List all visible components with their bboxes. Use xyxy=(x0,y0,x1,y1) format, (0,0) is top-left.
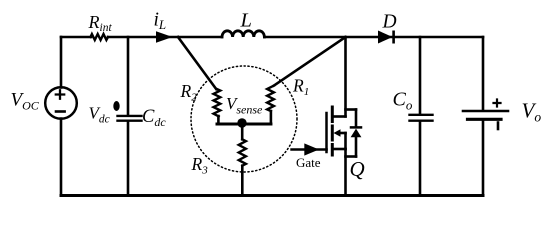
svg-text:L: L xyxy=(240,10,252,32)
svg-text:D: D xyxy=(382,12,397,33)
svg-text:Q: Q xyxy=(350,157,365,181)
svg-text:Gate: Gate xyxy=(296,155,321,170)
